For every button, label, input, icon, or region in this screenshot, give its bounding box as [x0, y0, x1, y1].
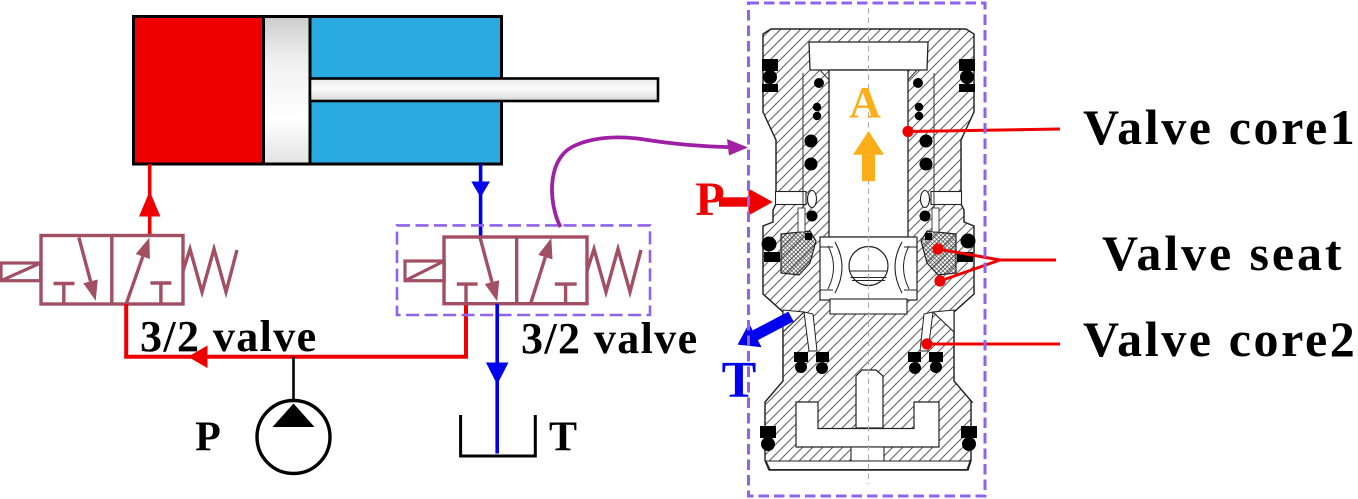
seat cup arcs left — [835, 242, 842, 293]
svg-text:T: T — [722, 352, 757, 409]
valve seat crosshatch left — [781, 231, 816, 275]
valve V2 3/2 symbol — [444, 237, 641, 304]
seat area seals right — [961, 234, 976, 249]
port band right white — [931, 192, 962, 205]
valve V1 right arrow — [126, 257, 143, 304]
top recess white — [809, 42, 928, 70]
valve V1 right arrowhead — [136, 238, 150, 259]
centerline — [868, 8, 870, 484]
valve V2 solenoid — [405, 261, 444, 281]
central bore white — [829, 70, 908, 237]
sleeve dots left — [814, 78, 824, 88]
center plug — [856, 370, 883, 428]
core2 shoulder white right — [933, 310, 954, 332]
valve V1 body — [41, 236, 183, 305]
blue arrow down on wire — [471, 182, 490, 198]
sleeve chamfer lines — [820, 70, 829, 80]
valve V2 right T port — [555, 282, 577, 285]
core2 seal row right — [929, 352, 943, 362]
valve V2 dashed selection box — [397, 225, 650, 315]
svg-text:P: P — [195, 415, 221, 461]
O-ring seals top right — [959, 59, 975, 71]
core2 shoulder white left — [783, 310, 804, 332]
sleeve slot right — [921, 191, 930, 208]
callout valve seat — [932, 243, 943, 254]
svg-text:Valve core1: Valve core1 — [1083, 99, 1357, 155]
valve body silhouette hatched — [763, 29, 974, 470]
valve V1 3/2 symbol — [41, 236, 237, 305]
O-ring seals top left — [760, 59, 977, 451]
red arrow P right — [719, 197, 749, 206]
valve V1 left arrow — [79, 238, 91, 282]
cylinder body outline — [134, 17, 502, 165]
red supply wire from V1 bottom to V2 bottom — [126, 304, 466, 357]
bottom cavity white U — [796, 402, 939, 447]
piston — [264, 17, 311, 165]
svg-text:T: T — [549, 415, 577, 461]
seat cup arcs right — [895, 242, 902, 293]
blue arrow T down-left — [738, 312, 794, 348]
sleeve dots right — [913, 78, 923, 88]
valve V2 left arrow — [480, 237, 492, 282]
valve seat crosshatch right — [921, 231, 956, 275]
pump connection line — [292, 357, 295, 401]
blue arrow down to tank — [486, 363, 509, 385]
wire red cylinder to valve V1 — [148, 164, 152, 236]
valve V2 body — [444, 237, 587, 304]
tank symbol — [461, 415, 536, 456]
svg-text:Valve core2: Valve core2 — [1083, 311, 1357, 367]
valve V1 left T port — [54, 282, 75, 285]
red arrow left on supply wire — [188, 346, 208, 369]
callout valve core1 — [902, 126, 913, 137]
valve V2 right arrowhead — [538, 238, 552, 259]
purple leader arrowhead — [727, 139, 748, 156]
valve V1 spring — [183, 249, 237, 292]
bottom channel white — [851, 447, 884, 461]
piston rod — [310, 79, 658, 102]
svg-text:A: A — [849, 78, 881, 127]
callout valve core2 — [921, 338, 932, 349]
valve V2 spring — [587, 249, 641, 292]
seat chamber white — [820, 237, 917, 300]
valve V1 left arrowhead — [83, 280, 98, 301]
svg-text:Valve seat: Valve seat — [1102, 225, 1344, 281]
svg-text:3/2 valve: 3/2 valve — [521, 314, 699, 363]
pump triangle — [273, 404, 315, 428]
chamber lower extension — [830, 299, 907, 314]
cylinder left chamber red — [135, 18, 264, 163]
valve V1 right T port — [150, 281, 171, 284]
bottom strip — [766, 461, 970, 470]
valve V2 left arrowhead — [485, 280, 500, 301]
sleeve slot left — [808, 191, 817, 208]
svg-text:3/2 valve: 3/2 valve — [140, 312, 318, 361]
purple leader curve to cross-section — [552, 137, 733, 227]
seat area seals left — [762, 237, 777, 252]
valve V2 right arrow — [531, 257, 546, 304]
valve V1 solenoid — [1, 263, 41, 281]
orange arrow A up — [853, 131, 884, 155]
valve V2 left T port — [457, 282, 478, 285]
cylinder right chamber blue — [311, 18, 500, 163]
blue wire V2 to tank — [495, 304, 499, 454]
bottom corner seals — [760, 426, 776, 438]
red arrow up on wire — [139, 191, 160, 217]
pump P circle — [257, 401, 330, 474]
wire blue cylinder to valve V2 — [479, 164, 483, 237]
port band left white — [776, 192, 807, 205]
core2 seal row left — [794, 352, 808, 362]
ball — [849, 247, 888, 286]
cross-section dashed border — [749, 3, 986, 496]
sleeve seam lines — [802, 73, 804, 232]
